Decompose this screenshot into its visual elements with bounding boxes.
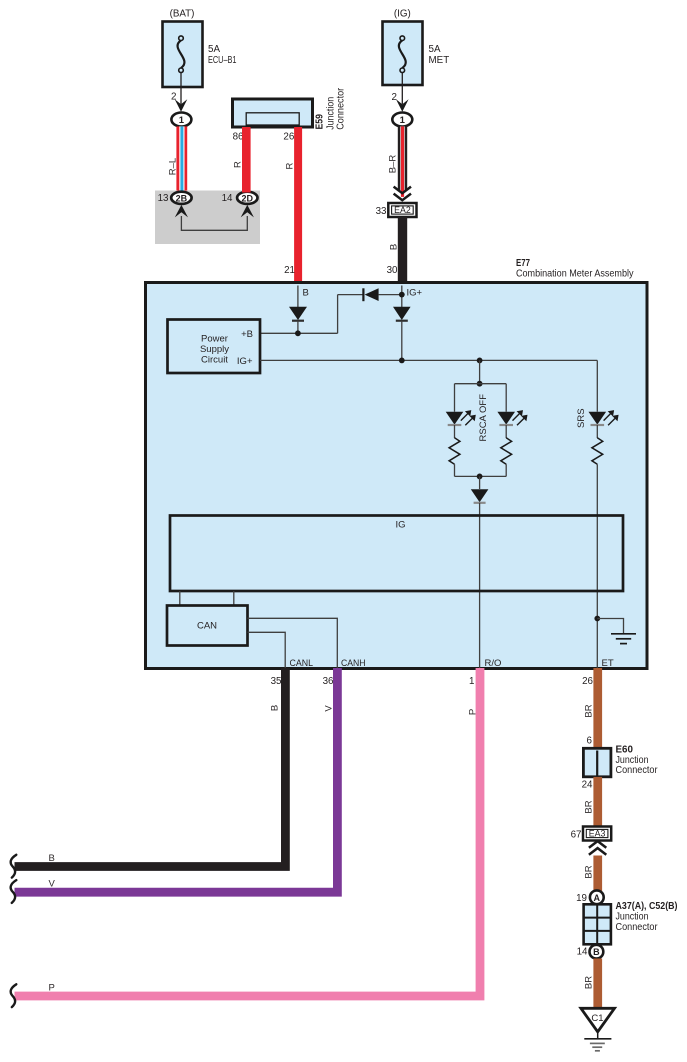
svg-text:P: P bbox=[49, 983, 55, 994]
svg-text:A: A bbox=[594, 893, 601, 903]
diode D1 under B bbox=[289, 307, 307, 334]
links IG to CAN bbox=[180, 591, 234, 606]
ground inside meter bbox=[594, 616, 636, 644]
fuse F1 (BAT) 5A ECU-B1 bbox=[163, 9, 237, 88]
svg-text:2: 2 bbox=[392, 92, 397, 103]
svg-text:EA3: EA3 bbox=[589, 829, 606, 839]
svg-text:2D: 2D bbox=[242, 193, 254, 203]
svg-text:IG+: IG+ bbox=[237, 356, 253, 367]
svg-text:RSCA OFF: RSCA OFF bbox=[478, 394, 489, 442]
svg-text:1: 1 bbox=[179, 115, 185, 126]
wire ET through IG box bbox=[596, 464, 598, 668]
connector 2D bbox=[237, 192, 257, 204]
svg-text:BR: BR bbox=[584, 865, 595, 878]
connector circle B bbox=[590, 945, 604, 959]
svg-text:CANH: CANH bbox=[341, 658, 366, 669]
squiggle wire V continuation bbox=[11, 880, 17, 903]
wire link 2B to 2D bbox=[181, 216, 247, 230]
svg-text:R/O: R/O bbox=[485, 658, 502, 669]
svg-text:24: 24 bbox=[582, 780, 593, 791]
svg-text:Power: Power bbox=[201, 334, 228, 345]
squiggle wire B continuation bbox=[11, 855, 17, 878]
svg-text:B: B bbox=[303, 288, 309, 299]
fuse F2 (IG) 5A MET bbox=[383, 9, 450, 86]
svg-text:2B: 2B bbox=[176, 193, 188, 203]
diode D4 under RSCA bbox=[471, 489, 489, 503]
connector EA2 bbox=[388, 203, 416, 217]
power supply circuit U1 bbox=[168, 320, 261, 374]
gray shield box bbox=[155, 191, 260, 245]
connector EA3 bbox=[583, 827, 611, 841]
wire B (CANL) bbox=[15, 668, 286, 867]
svg-text:B: B bbox=[593, 947, 600, 957]
chevron arrows out of EA3 bbox=[589, 841, 606, 855]
wire CAN to CANH bbox=[248, 618, 338, 668]
svg-text:26: 26 bbox=[582, 676, 593, 687]
wire BR segment 4 bbox=[584, 959, 603, 1009]
diode D2 pointing left bbox=[338, 288, 402, 301]
IG+ rail bbox=[260, 358, 597, 364]
connector 2B bbox=[171, 192, 191, 204]
svg-text:36: 36 bbox=[323, 676, 334, 687]
svg-text:67: 67 bbox=[571, 829, 582, 840]
svg-text:Circuit: Circuit bbox=[201, 355, 228, 366]
wire fuse BAT to connector pin 2 bbox=[171, 73, 181, 104]
junction connector E59 bbox=[233, 87, 347, 130]
svg-text:30: 30 bbox=[387, 265, 398, 276]
svg-text:C1: C1 bbox=[591, 1013, 603, 1024]
wire V (CANH) bbox=[15, 668, 338, 892]
LED3 SRS bbox=[589, 360, 619, 425]
junction connector E60 bbox=[583, 745, 658, 777]
wire CAN to CANL bbox=[248, 632, 286, 668]
resistor R2 bbox=[501, 425, 512, 476]
svg-text:BR: BR bbox=[584, 800, 595, 813]
resistor R3 bbox=[592, 425, 603, 464]
svg-text:E59: E59 bbox=[315, 114, 326, 130]
svg-text:BR: BR bbox=[584, 976, 595, 989]
diode D3 under IG+ bbox=[393, 307, 411, 361]
wire to RSCA branch bbox=[455, 360, 507, 386]
arrow into connector 1 (IG) bbox=[396, 99, 409, 112]
svg-text:(BAT): (BAT) bbox=[170, 9, 195, 20]
svg-text:14: 14 bbox=[577, 947, 588, 958]
svg-text:IG+: IG+ bbox=[407, 288, 423, 299]
svg-text:+B: +B bbox=[241, 329, 253, 340]
svg-text:SRS: SRS bbox=[576, 408, 587, 428]
svg-text:33: 33 bbox=[376, 206, 387, 217]
wire BR segment 2 bbox=[584, 777, 603, 827]
wire R-L (red/blue stripe) bbox=[168, 126, 188, 192]
svg-text:13: 13 bbox=[158, 193, 169, 204]
CAN block bbox=[167, 606, 248, 646]
combination meter assembly box E77 bbox=[146, 283, 648, 669]
svg-text:14: 14 bbox=[222, 193, 233, 204]
svg-text:P: P bbox=[468, 709, 479, 715]
svg-text:E60: E60 bbox=[616, 745, 634, 756]
RSCA bottom rail bbox=[455, 474, 507, 490]
svg-text:B: B bbox=[49, 853, 55, 864]
wire BR (ET) segment 1 bbox=[584, 668, 603, 749]
wire P (R/O) bbox=[15, 668, 481, 996]
chevron arrows into EA2 bbox=[394, 187, 411, 201]
E77 label bbox=[516, 258, 634, 280]
svg-text:ET: ET bbox=[602, 658, 614, 669]
wire R from E59 pin 86 to 2D bbox=[232, 127, 250, 193]
ground symbol bbox=[584, 1032, 611, 1051]
svg-text:CAN: CAN bbox=[197, 621, 217, 632]
node IG+ (pin 30 inside) bbox=[399, 286, 423, 308]
svg-text:19: 19 bbox=[576, 893, 587, 904]
svg-text:V: V bbox=[49, 879, 56, 890]
svg-text:Supply: Supply bbox=[200, 344, 229, 355]
svg-text:Combination Meter Assembly: Combination Meter Assembly bbox=[516, 269, 634, 280]
svg-text:1: 1 bbox=[469, 676, 474, 687]
connector circle A bbox=[590, 890, 604, 904]
IG block bbox=[170, 516, 623, 592]
svg-text:EA2: EA2 bbox=[394, 205, 411, 215]
svg-text:5A: 5A bbox=[429, 44, 441, 55]
svg-text:A37(A), C52(B): A37(A), C52(B) bbox=[616, 901, 678, 912]
svg-text:ECU–B1: ECU–B1 bbox=[208, 55, 237, 66]
svg-text:1: 1 bbox=[400, 115, 406, 126]
svg-text:IG: IG bbox=[395, 520, 405, 531]
wire fuse IG to connector pin 2 bbox=[392, 73, 403, 104]
wire R/O through IG box bbox=[479, 503, 481, 668]
wire B from EA2 to meter pin 30 bbox=[388, 217, 407, 283]
svg-text:Junction: Junction bbox=[616, 912, 649, 923]
svg-text:Connector: Connector bbox=[616, 765, 659, 776]
wire R from E59 pin 26 to meter pin 21 bbox=[285, 127, 303, 283]
svg-text:35: 35 bbox=[271, 676, 282, 687]
svg-text:V: V bbox=[324, 705, 335, 712]
svg-text:CANL: CANL bbox=[290, 658, 314, 669]
node B (pin 21 inside) bbox=[298, 286, 309, 308]
svg-text:B: B bbox=[270, 705, 281, 711]
svg-text:(IG): (IG) bbox=[394, 9, 411, 20]
wire B-R (black/red stripe) bbox=[387, 126, 407, 196]
svg-text:BR: BR bbox=[584, 704, 595, 717]
svg-text:B–R: B–R bbox=[387, 155, 398, 174]
arrow into connector 1 (BAT) bbox=[175, 99, 188, 112]
svg-text:6: 6 bbox=[587, 736, 593, 747]
svg-text:21: 21 bbox=[284, 265, 295, 276]
ground connector C1 bbox=[581, 1008, 615, 1032]
svg-text:R: R bbox=[285, 162, 296, 169]
wire BR segment 3 bbox=[584, 856, 603, 892]
arrow into 2B bbox=[175, 205, 188, 218]
LED2 RSCA right bbox=[497, 384, 527, 426]
svg-text:Connector: Connector bbox=[616, 922, 659, 933]
connector circle 1 (BAT) bbox=[171, 113, 191, 127]
svg-text:B: B bbox=[388, 244, 399, 250]
+B rail bbox=[260, 295, 338, 337]
arrow into 2D bbox=[241, 205, 254, 218]
svg-text:26: 26 bbox=[283, 131, 294, 142]
connector circle 1 (IG) bbox=[392, 113, 412, 127]
svg-text:E77: E77 bbox=[516, 258, 530, 269]
svg-text:5A: 5A bbox=[208, 44, 220, 55]
svg-text:MET: MET bbox=[429, 55, 450, 66]
squiggle wire P continuation bbox=[11, 984, 17, 1007]
LED1 RSCA left bbox=[446, 384, 476, 426]
svg-text:Connector: Connector bbox=[336, 87, 347, 130]
svg-text:R: R bbox=[232, 161, 243, 168]
resistor R1 bbox=[449, 425, 460, 476]
svg-text:R–L: R–L bbox=[168, 158, 179, 175]
junction connector A37(A), C52(B) bbox=[584, 901, 678, 944]
